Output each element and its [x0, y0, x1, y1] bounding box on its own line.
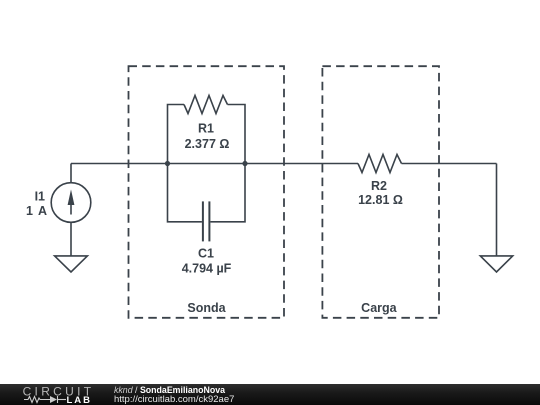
box: Sonda dashed	[129, 66, 285, 318]
current source I1 body	[51, 183, 91, 223]
svg-text:R2: R2	[371, 179, 387, 193]
svg-text:Sonda: Sonda	[187, 301, 226, 315]
wire: C1 branch right	[210, 164, 245, 222]
resistor R2	[358, 155, 402, 173]
footer bar	[0, 384, 540, 405]
svg-text:12.81 Ω: 12.81 Ω	[358, 193, 403, 207]
wire: right vertical down to ground	[496, 164, 498, 256]
current source I1 arrow	[68, 190, 75, 215]
capacitor C1 plates	[203, 201, 210, 241]
wire: C1 branch left	[168, 164, 202, 222]
wire: I1 bottom lead	[70, 222, 72, 256]
wire: main horizontal net from I1 to R2 left lead	[71, 163, 358, 165]
resistor R1	[184, 96, 228, 114]
svg-text:4.794 µF: 4.794 µF	[182, 261, 232, 275]
svg-text:I1: I1	[35, 189, 45, 203]
svg-text:C1: C1	[198, 247, 214, 261]
ground (right)	[480, 256, 512, 272]
node: junction dot left	[165, 161, 170, 166]
wire: R1 branch right vertical	[228, 105, 246, 164]
CircuitLab logo	[20, 384, 95, 405]
wire: I1 top lead	[70, 164, 72, 183]
svg-text:2.377 Ω: 2.377 Ω	[185, 137, 230, 151]
wire: R2 right lead to right vertical	[402, 163, 497, 165]
ground (left)	[55, 256, 88, 272]
box: Carga dashed	[322, 66, 439, 318]
svg-text:1 A: 1 A	[26, 204, 48, 218]
svg-text:LAB: LAB	[67, 395, 93, 405]
svg-text:R1: R1	[198, 121, 214, 135]
svg-text:Carga: Carga	[361, 301, 397, 315]
wire: R1 branch left vertical	[168, 105, 185, 164]
node: junction dot right	[242, 161, 247, 166]
